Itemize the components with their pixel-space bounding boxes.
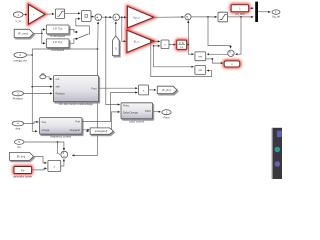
saturation 2 — [218, 12, 228, 22]
svg-text:Kp_v: Kp_v — [134, 15, 141, 19]
wire: tag up into sum B — [115, 22, 117, 36]
wire: saturation to block B1 — [65, 12, 81, 14]
wire: sum A-B junction down to pitch input 1 — [106, 17, 120, 104]
svg-text:urb: urb — [56, 78, 60, 81]
gain Kp_v red-highlighted — [127, 6, 153, 28]
wire: omega down to DC-link and freq control — [32, 55, 37, 131]
svg-text:Pref: Pref — [75, 121, 80, 124]
gain K red-highlighted — [29, 4, 46, 24]
svg-text:Pe: Pe — [21, 168, 25, 172]
wire: branch down to sum C top — [208, 17, 231, 48]
svg-text:urb: urb — [41, 72, 45, 76]
wire: mux to outport — [258, 11, 270, 13]
outport Uq_ref — [272, 10, 280, 19]
red-highlighted block (rounded) — [224, 61, 240, 67]
sum S2 — [185, 14, 191, 20]
mux — [255, 2, 258, 22]
sum A — [95, 14, 102, 21]
svg-text:pitch control: pitch control — [130, 119, 145, 123]
svg-text:Ud_MW: Ud_MW — [235, 12, 245, 16]
svg-text:min: min — [198, 69, 203, 72]
svg-text:Pelec: Pelec — [123, 104, 130, 107]
svg-text:omegaref: omegaref — [69, 129, 80, 132]
sum C — [228, 50, 234, 56]
svg-text:omega_rim: omega_rim — [13, 59, 27, 63]
svg-text:[P_lim]: [P_lim] — [17, 155, 25, 159]
wire: branch down to gain Ki — [122, 17, 126, 41]
wire: freq out2 to goto omegaref and pitch input 2 — [82, 129, 111, 131]
wire: branch to min block M1 input — [188, 45, 193, 55]
min block M1 — [195, 52, 206, 61]
wire: gain Ki to product P1 — [154, 40, 160, 42]
wire: P_lim to product P3 — [34, 156, 47, 163]
svg-text:Pe: Pe — [18, 145, 22, 149]
subsystem pitch control — [121, 103, 153, 124]
From tag vertical (feeds sum B bottom) — [113, 36, 120, 56]
svg-text:[omegaref]: [omegaref] — [95, 129, 108, 133]
wire: switch up into B1 second input — [76, 19, 90, 35]
svg-text:Ki_v: Ki_v — [134, 39, 140, 43]
outport Pitch — [162, 110, 171, 120]
wire: gain to saturation — [45, 13, 54, 15]
subsystem DC link control undervoltage — [53, 76, 98, 106]
inport omega_rim — [13, 52, 27, 62]
From tag [P_lim] — [10, 152, 34, 160]
wire: Pe branch to sum left — [58, 142, 61, 154]
block B1 (2-input) — [82, 11, 92, 22]
wire: integrator up into sum S2 — [187, 21, 189, 45]
svg-text:wrb: wrb — [56, 86, 61, 89]
inport Preduce — [12, 91, 23, 101]
inport freq — [12, 121, 23, 130]
svg-text:Underspeed: Underspeed — [50, 34, 65, 38]
gain Ki_v red-highlighted — [127, 30, 154, 52]
svg-text:1-D T(u): 1-D T(u) — [53, 26, 63, 30]
svg-text:Pitch: Pitch — [164, 115, 170, 119]
svg-text:Delta Omega: Delta Omega — [123, 111, 138, 114]
product P2 — [139, 85, 149, 95]
svg-text:frequency control: frequency control — [50, 135, 71, 139]
wire: sum B to gain Kp — [120, 16, 127, 18]
wire: Pe to bottom sum top — [24, 142, 64, 150]
wire: sum A to sum B — [102, 16, 112, 18]
min block M2 — [195, 66, 206, 75]
switch after lookup tables — [69, 29, 76, 32]
svg-text:[P_mec]: [P_mec] — [18, 32, 28, 36]
inport Pe — [14, 140, 24, 149]
svg-text:freq: freq — [42, 121, 47, 124]
svg-text:min: min — [198, 55, 203, 58]
saturation 1 — [55, 9, 64, 19]
subsystem frequency control — [40, 118, 82, 139]
wire: P2 to goto P_lim — [149, 89, 156, 91]
generator power Pe block red-highlighted — [14, 167, 32, 174]
wire: constant to mux — [249, 7, 254, 9]
sum marks — [63, 16, 234, 157]
taskbar fragment bottom-right — [272, 128, 282, 179]
constant Ud_MW red-highlighted — [231, 5, 248, 12]
svg-text:Pitch: Pitch — [145, 110, 151, 113]
wire: P3 up into bottom sum — [61, 159, 64, 166]
wire: Pout to product P2 — [99, 87, 138, 89]
wire: sum S2 to saturation 2 and mux — [191, 16, 217, 18]
svg-text:Pout: Pout — [91, 87, 96, 90]
wires: junction net to red box — [206, 58, 213, 60]
inport 1 v_w — [13, 12, 23, 23]
wire: B1 to sum A — [91, 15, 94, 17]
wire: Pe block to product P3 — [32, 168, 47, 170]
wire: From tag to lookup tables — [34, 32, 42, 34]
wire: branch down to sum C right — [235, 17, 241, 54]
svg-text:generator power: generator power — [13, 175, 32, 179]
svg-text:[P_lim]: [P_lim] — [162, 88, 170, 92]
goto tag [omegaref] — [90, 128, 113, 134]
wire: gain Kp to sum S2 — [154, 16, 184, 18]
svg-text:DC link control undervoltage: DC link control undervoltage — [59, 102, 93, 106]
svg-text:v_w: v_w — [16, 19, 22, 23]
sum B — [113, 14, 120, 21]
wire: omega up to sum A bottom — [32, 49, 97, 55]
svg-text:+: + — [33, 13, 35, 17]
goto tag [P_lim] — [157, 86, 177, 93]
wire: omega long down to bottom sum — [72, 49, 97, 155]
svg-text:freq: freq — [16, 127, 21, 131]
wire: pitch out to outport — [153, 110, 161, 113]
long wire: from lower area to min M2 input — [151, 41, 212, 76]
long wire: to min M2 input 1 — [154, 46, 194, 67]
wire: freq out1 up to product P2 input 2 — [82, 93, 137, 122]
inport urb — [40, 72, 46, 79]
bottom sum S3 — [61, 151, 68, 158]
wire: sum C to min block M1 — [207, 53, 228, 55]
wire: product to integrator — [169, 44, 176, 46]
svg-text:omega: omega — [42, 129, 50, 132]
product P1 — [161, 40, 169, 49]
From tag [P_mec] — [14, 29, 33, 37]
svg-text:1-D T(u): 1-D T(u) — [53, 40, 63, 44]
wire: omega_rim junction — [26, 54, 32, 56]
lookup table Underspeed — [46, 25, 69, 38]
svg-text:Preduce: Preduce — [13, 97, 24, 101]
svg-text:Preduce: Preduce — [56, 93, 66, 96]
wire: inport v_w to gain — [23, 13, 27, 15]
svg-text:Uq_ref: Uq_ref — [272, 15, 280, 19]
lookup table Overspeed — [46, 39, 69, 52]
product P3 — [48, 160, 61, 171]
discrete integrator red-highlighted — [177, 40, 187, 49]
